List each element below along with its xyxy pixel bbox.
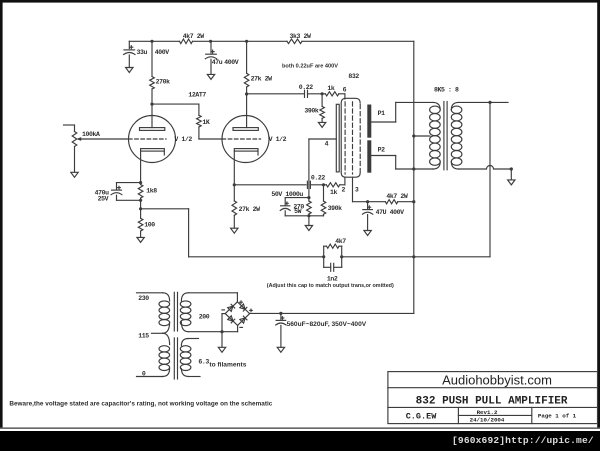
title 24/10/2004 xyxy=(470,417,505,424)
plate P2 xyxy=(367,140,371,172)
triode V1b plate xyxy=(233,128,258,131)
tube 832 envelope xyxy=(341,98,360,177)
svg-text:Audiohobbyist.com: Audiohobbyist.com xyxy=(442,372,552,387)
node top coupling junction xyxy=(321,92,324,95)
title block frame xyxy=(388,372,598,424)
resistor 390k (lower) xyxy=(321,185,342,216)
wire HV secondary top lead xyxy=(188,293,237,302)
capacitor 1000u 50V xyxy=(271,191,309,216)
svg-text:5W: 5W xyxy=(294,208,302,215)
wire B+ rail segment right xyxy=(302,40,414,42)
wire rail to 27k 2W xyxy=(246,41,248,73)
title 832 PUSH PULL AMPLIFIER xyxy=(416,395,568,407)
label adjust note xyxy=(267,283,394,289)
label 200 xyxy=(199,313,210,320)
PSU filament winding xyxy=(180,339,191,377)
label to filaments xyxy=(209,362,246,369)
svg-text:100kA: 100kA xyxy=(82,131,100,138)
svg-text:27k 2W: 27k 2W xyxy=(239,206,261,213)
wire PSU B+ run xyxy=(250,312,414,314)
svg-text:4k7 2W: 4k7 2W xyxy=(183,33,205,40)
wire bias vertical xyxy=(308,139,310,198)
node feedback takeoff junction xyxy=(139,207,142,210)
PSU core upper xyxy=(174,292,177,331)
PSU primary upper winding xyxy=(159,293,170,334)
capacitor 470u 25V xyxy=(95,183,141,203)
node rail junction at 270k xyxy=(150,40,153,43)
ground below 47u xyxy=(207,74,214,79)
OPT core xyxy=(444,102,447,170)
wire center tap xyxy=(414,135,430,137)
ground below pot xyxy=(71,172,78,177)
capacitor 0.22 (top) xyxy=(299,84,314,97)
wire B+ rail segment middle xyxy=(193,40,288,42)
svg-text:832 PUSH PULL AMPLIFIER: 832 PUSH PULL AMPLIFIER xyxy=(416,395,568,407)
node screen bypass junction xyxy=(366,200,369,203)
node secondary ground junction xyxy=(510,167,513,170)
svg-text:27k 2W: 27k 2W xyxy=(251,75,273,82)
label pin 6 xyxy=(343,86,347,93)
OPT secondary winding xyxy=(451,102,462,169)
resistor 1k8 xyxy=(138,183,157,201)
svg-text:50V 1000u: 50V 1000u xyxy=(271,191,303,198)
label 832 xyxy=(348,73,359,80)
wire 1k to pin 2 xyxy=(340,177,345,185)
svg-text:560uF~820uF, 350V~400V: 560uF~820uF, 350V~400V xyxy=(287,321,367,328)
svg-text:24/10/2004: 24/10/2004 xyxy=(470,417,505,424)
ground below 560uF xyxy=(277,347,284,352)
wire secondary top lead xyxy=(459,101,508,103)
node feedback left xyxy=(322,255,325,258)
title C.G.EW xyxy=(406,411,438,421)
svg-text:1K: 1K xyxy=(202,119,210,126)
resistor 4k7 2W (screen) xyxy=(385,193,408,204)
ground below 100 xyxy=(137,237,144,242)
svg-text:3k3 2W: 3k3 2W xyxy=(290,33,312,40)
triode V1a grid xyxy=(129,138,167,140)
svg-text:115: 115 xyxy=(138,333,149,340)
label 0 xyxy=(142,370,146,377)
svg-text:6: 6 xyxy=(343,86,347,93)
wire pot wiper to triode1 grid xyxy=(76,137,128,141)
label P1 xyxy=(378,110,386,117)
wire mains 0 lead xyxy=(137,376,163,378)
label pin 4 xyxy=(325,141,329,148)
title Rev1.2 xyxy=(477,409,498,416)
svg-text:8K5 : 8: 8K5 : 8 xyxy=(434,86,459,93)
node feedback at secondary xyxy=(488,101,491,104)
ground below bridge xyxy=(218,347,225,352)
svg-text:both 0.22uF are 400V: both 0.22uF are 400V xyxy=(282,63,338,69)
svg-text:6.3: 6.3 xyxy=(198,358,209,365)
watermark bar xyxy=(0,431,600,451)
svg-text:270k: 270k xyxy=(156,79,171,86)
ground at secondary xyxy=(508,180,515,185)
svg-text:P2: P2 xyxy=(378,147,386,154)
bridge polarity marks xyxy=(222,301,252,328)
wire P2 to primary bottom xyxy=(371,156,433,170)
wire mains 115 lead xyxy=(152,332,163,334)
label beware note xyxy=(9,400,272,407)
svg-text:V 1/2: V 1/2 xyxy=(269,136,287,143)
wire secondary to ground xyxy=(510,169,512,180)
node triode2 cathode junction xyxy=(233,183,236,186)
capacitor 560uF reservoir xyxy=(276,313,286,347)
wire HV secondary bottom lead xyxy=(188,325,237,331)
svg-text:0.22: 0.22 xyxy=(299,84,314,91)
label 560uF xyxy=(287,321,367,328)
wire P1 to primary top xyxy=(371,102,433,122)
wire screen resistor to B+ xyxy=(398,201,414,203)
wire bias to ground xyxy=(308,216,310,226)
svg-text:47U 400V: 47U 400V xyxy=(376,209,405,216)
resistor 27k 2W (lower) xyxy=(232,185,260,228)
capacitor 1n2 (feedback) xyxy=(324,257,342,283)
node 1k8 bottom junction xyxy=(139,199,142,202)
wire triode2 cathode to cap xyxy=(234,184,306,186)
wire triode2 plate to cap xyxy=(247,93,304,95)
node B+ at feedback line xyxy=(412,255,415,258)
svg-text:V 1/2: V 1/2 xyxy=(174,136,192,143)
resistor 1k (bottom) xyxy=(326,183,340,196)
ground below bias network xyxy=(305,226,312,231)
svg-text:Rev1.2: Rev1.2 xyxy=(477,409,498,416)
triode V1b cathode xyxy=(234,149,258,155)
svg-text:832: 832 xyxy=(348,73,359,80)
wire triode2 cathode lead xyxy=(233,151,235,185)
svg-text:P1: P1 xyxy=(378,110,386,117)
capacitor 0.22 (bottom) xyxy=(307,175,325,189)
svg-text:to filaments: to filaments xyxy=(209,362,246,369)
wire 27k to triode2 plate xyxy=(246,87,248,128)
label V 1/2 (triode 1) xyxy=(174,136,192,143)
node HV bottom ground junction xyxy=(220,330,223,333)
svg-text:12AT7: 12AT7 xyxy=(188,92,206,99)
wire filament top lead xyxy=(188,338,198,340)
tube 832 grid 2 (dashed right edge) xyxy=(359,105,361,172)
svg-text:Beware,the voltage stated are: Beware,the voltage stated are capacitor'… xyxy=(9,400,272,407)
node bias top junction xyxy=(307,196,310,199)
wire pot to ground xyxy=(74,147,76,173)
capacitor 47u 400V xyxy=(205,41,239,74)
triode V1a cathode xyxy=(141,149,165,155)
svg-text:1k: 1k xyxy=(330,189,338,196)
node bottom coupling junction xyxy=(322,183,325,186)
node screen feed at B+ xyxy=(412,200,415,203)
PSU primary lower winding xyxy=(159,333,170,376)
label P2 xyxy=(378,147,386,154)
capacitor 33u 400V xyxy=(124,41,170,67)
label 230 xyxy=(138,295,149,302)
OPT primary winding xyxy=(430,102,441,169)
wire 1K to triode2 grid xyxy=(199,127,222,139)
svg-text:200: 200 xyxy=(199,313,210,320)
wire input stub xyxy=(64,125,75,132)
wire triode1 cathode lead xyxy=(140,151,142,183)
capacitor 47U 400V (screen bypass) xyxy=(362,202,404,231)
triode V1b envelope xyxy=(222,116,269,163)
wire triode1 plate to 1K xyxy=(152,104,199,115)
resistor 4k7 2W (rail) xyxy=(180,33,205,44)
wire cathode node down xyxy=(140,200,142,218)
wire B+ rail segment left xyxy=(129,40,179,42)
triode V1a envelope xyxy=(129,116,176,163)
resistor 270k xyxy=(150,77,170,90)
tube 832 cathode bar xyxy=(336,104,339,172)
node cathode/470u junction xyxy=(139,181,142,184)
label pin 3 xyxy=(355,187,359,194)
resistor 1k (top) xyxy=(325,85,338,96)
svg-text:1n2: 1n2 xyxy=(327,276,338,283)
svg-text:3: 3 xyxy=(355,187,359,194)
label 6.3 xyxy=(198,358,209,365)
svg-text:2: 2 xyxy=(342,187,346,194)
svg-text:0.22: 0.22 xyxy=(311,175,326,182)
svg-text:100: 100 xyxy=(144,221,155,228)
title Audiohobbyist.com xyxy=(442,372,552,387)
node triode2 plate junction xyxy=(245,92,248,95)
wire cap to 1k (top) xyxy=(308,93,326,95)
resistor 1K xyxy=(197,115,210,127)
PSU core lower xyxy=(174,338,177,379)
label pin 2 xyxy=(342,187,346,194)
wire feedback takeoff xyxy=(141,209,189,257)
node reservoir cap junction xyxy=(279,312,282,315)
label 12AT7 xyxy=(188,92,206,99)
resistor 270 5W xyxy=(293,198,311,216)
svg-text:25V: 25V xyxy=(98,196,109,203)
wire bridge left to ground xyxy=(222,314,225,348)
svg-text:4: 4 xyxy=(325,141,329,148)
wire pin 3 lead xyxy=(352,177,354,202)
wire feedback run left xyxy=(189,256,324,258)
wire pin 4 to cathode bar xyxy=(309,138,336,140)
ground below lower 27k xyxy=(231,228,238,233)
svg-text:390k: 390k xyxy=(328,205,343,212)
wire 1k to pin 6 xyxy=(339,94,345,99)
wire mains 230 lead xyxy=(137,292,163,294)
svg-text:47u: 47u xyxy=(212,59,223,66)
potentiometer 100kA xyxy=(72,131,100,147)
triode V1b grid xyxy=(222,138,261,140)
svg-text:1k8: 1k8 xyxy=(146,187,157,194)
svg-text:400V: 400V xyxy=(224,59,239,66)
bridge rectifier xyxy=(225,302,249,326)
PSU HV secondary winding xyxy=(180,293,191,332)
wire cap to 1k (bottom) xyxy=(310,184,326,186)
svg-text:[960x692]http://upic.me/: [960x692]http://upic.me/ xyxy=(452,435,594,446)
wire feedback vertical xyxy=(342,102,490,256)
wire 270k to triode1 plate xyxy=(151,89,153,128)
svg-text:(Adjust this cap to match outp: (Adjust this cap to match output trans,o… xyxy=(267,283,394,289)
wire pin3 to screen resistor xyxy=(353,201,386,203)
resistor 390k (upper) xyxy=(304,94,324,123)
resistor 4k7 (feedback) xyxy=(324,238,347,257)
wire rail to 270k xyxy=(151,41,153,76)
plate P1 xyxy=(367,105,371,138)
svg-text:Page 1 of 1: Page 1 of 1 xyxy=(538,413,577,420)
ground below 47U xyxy=(364,231,371,236)
svg-text:C.G.EW: C.G.EW xyxy=(406,411,438,421)
svg-text:390k: 390k xyxy=(304,107,319,114)
node triode1 plate junction xyxy=(150,103,153,106)
ground below upper 390k xyxy=(318,122,325,127)
wire filament bottom lead xyxy=(188,376,200,378)
triode V1a plate xyxy=(140,128,165,131)
svg-text:4k7 2W: 4k7 2W xyxy=(386,193,408,200)
wire secondary bottom lead with hop xyxy=(459,166,512,169)
label 115 xyxy=(138,333,149,340)
resistor 100 xyxy=(138,218,155,231)
svg-text:400V: 400V xyxy=(155,49,170,56)
svg-text:1k: 1k xyxy=(327,85,335,92)
tube 832 screen (dashed) xyxy=(352,102,354,174)
svg-text:230: 230 xyxy=(138,295,149,302)
node bias bottom junction xyxy=(307,214,310,217)
ground below 33u xyxy=(126,68,133,73)
resistor 3k3 2W (rail) xyxy=(287,33,311,44)
label both 0.22uF are 400V xyxy=(282,63,338,69)
node B+ at center tap xyxy=(412,134,415,137)
node feedback right xyxy=(340,255,343,258)
node B+ at primary bottom xyxy=(412,167,415,170)
svg-text:33u: 33u xyxy=(137,49,148,56)
label V 1/2 (triode 2) xyxy=(269,136,287,143)
wire 100 to ground xyxy=(140,231,142,237)
title Page 1 of 1 xyxy=(538,413,577,420)
node rail junction at 27k xyxy=(245,40,248,43)
svg-text:4k7: 4k7 xyxy=(335,238,346,245)
tube 832 grid 1 (dashed) xyxy=(344,102,346,174)
label 8K5 : 8 xyxy=(434,86,459,93)
wire bias bottom to 390k xyxy=(309,215,324,217)
resistor 27k 2W (triode2 plate) xyxy=(244,73,272,87)
wire B+ drop xyxy=(413,41,415,313)
watermark text xyxy=(452,435,594,446)
node rail junction at 47u xyxy=(209,40,212,43)
